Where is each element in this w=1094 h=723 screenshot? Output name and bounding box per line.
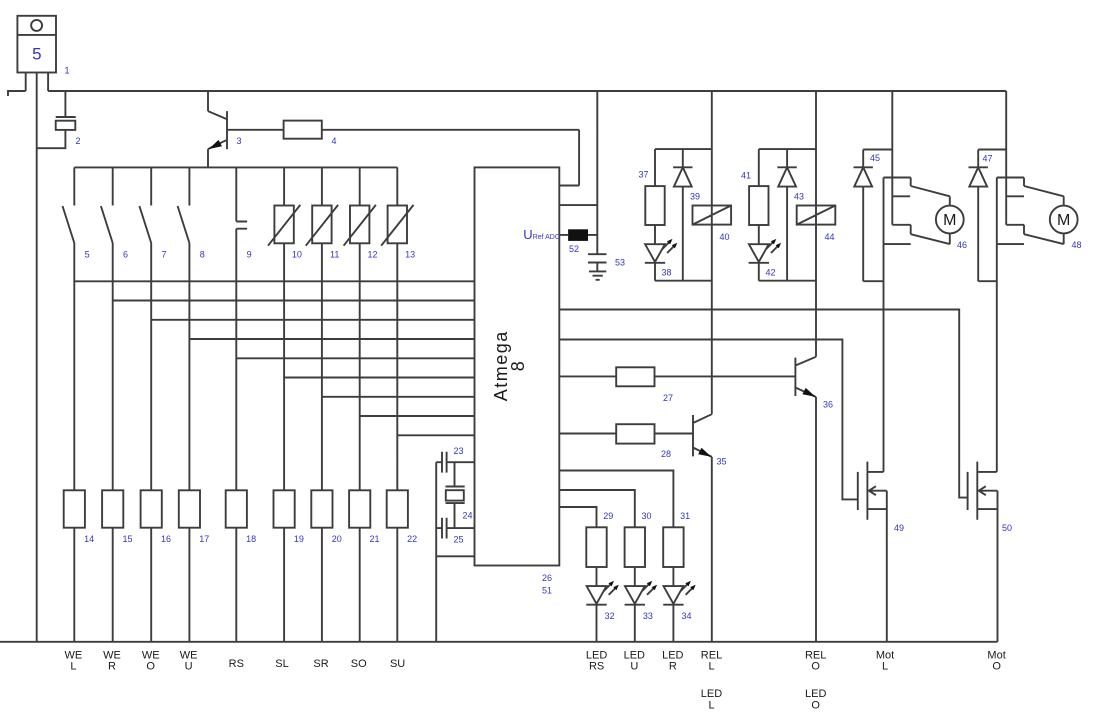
- svg-text:21: 21: [369, 534, 379, 544]
- svg-text:10: 10: [292, 250, 302, 260]
- svg-text:12: 12: [367, 250, 377, 260]
- svg-text:37: 37: [638, 170, 648, 180]
- svg-text:46: 46: [957, 240, 967, 250]
- svg-text:18: 18: [246, 534, 256, 544]
- svg-text:2: 2: [75, 136, 80, 146]
- svg-text:38: 38: [661, 268, 671, 278]
- svg-text:O: O: [811, 660, 820, 672]
- svg-text:M: M: [1057, 212, 1070, 229]
- svg-text:U: U: [630, 660, 638, 672]
- svg-text:20: 20: [332, 534, 342, 544]
- svg-text:39: 39: [690, 192, 700, 202]
- svg-text:16: 16: [161, 534, 171, 544]
- svg-text:M: M: [943, 212, 956, 229]
- svg-text:34: 34: [681, 611, 691, 621]
- svg-text:19: 19: [294, 534, 304, 544]
- svg-text:L: L: [70, 660, 76, 672]
- svg-text:48: 48: [1071, 240, 1081, 250]
- svg-text:30: 30: [641, 511, 651, 521]
- svg-text:SU: SU: [390, 658, 405, 670]
- svg-text:26: 26: [542, 573, 552, 583]
- svg-text:3: 3: [236, 136, 241, 146]
- svg-text:32: 32: [605, 611, 615, 621]
- svg-text:24: 24: [462, 511, 472, 521]
- svg-text:42: 42: [765, 268, 775, 278]
- svg-text:SR: SR: [313, 658, 328, 670]
- svg-text:O: O: [811, 700, 820, 712]
- svg-text:47: 47: [982, 154, 992, 164]
- svg-text:4: 4: [331, 136, 336, 146]
- svg-text:7: 7: [161, 250, 166, 260]
- svg-text:R: R: [108, 660, 116, 672]
- svg-text:SO: SO: [351, 658, 367, 670]
- svg-text:5: 5: [85, 250, 90, 260]
- svg-text:50: 50: [1002, 523, 1012, 533]
- svg-text:22: 22: [407, 534, 417, 544]
- svg-text:27: 27: [663, 393, 673, 403]
- svg-text:31: 31: [680, 511, 690, 521]
- svg-text:1: 1: [64, 66, 69, 76]
- svg-text:O: O: [992, 660, 1001, 672]
- svg-text:RS: RS: [229, 658, 244, 670]
- svg-text:43: 43: [794, 192, 804, 202]
- svg-text:23: 23: [453, 446, 463, 456]
- svg-text:28: 28: [661, 449, 671, 459]
- svg-text:53: 53: [615, 258, 625, 268]
- svg-text:O: O: [146, 660, 155, 672]
- svg-text:L: L: [708, 700, 714, 712]
- svg-text:SL: SL: [275, 658, 288, 670]
- svg-text:17: 17: [199, 534, 209, 544]
- svg-text:41: 41: [741, 171, 751, 181]
- svg-text:L: L: [882, 660, 888, 672]
- svg-text:L: L: [708, 660, 714, 672]
- svg-text:33: 33: [643, 611, 653, 621]
- svg-text:RS: RS: [589, 660, 604, 672]
- svg-text:LED: LED: [701, 688, 722, 700]
- svg-text:45: 45: [870, 153, 880, 163]
- svg-text:51: 51: [542, 586, 552, 596]
- svg-text:13: 13: [405, 250, 415, 260]
- svg-text:35: 35: [716, 457, 726, 467]
- svg-text:15: 15: [122, 534, 132, 544]
- svg-text:29: 29: [603, 511, 613, 521]
- svg-text:9: 9: [247, 250, 252, 260]
- svg-text:11: 11: [330, 250, 339, 260]
- svg-text:6: 6: [123, 250, 128, 260]
- svg-text:44: 44: [824, 232, 834, 242]
- svg-text:R: R: [669, 660, 677, 672]
- svg-text:LED: LED: [805, 688, 826, 700]
- svg-text:36: 36: [823, 400, 833, 410]
- svg-text:14: 14: [84, 534, 94, 544]
- svg-text:52: 52: [569, 244, 579, 254]
- svg-text:8: 8: [200, 250, 205, 260]
- svg-text:49: 49: [894, 523, 904, 533]
- svg-text:25: 25: [453, 535, 463, 545]
- svg-text:U: U: [185, 660, 193, 672]
- svg-text:URef ADC: URef ADC: [523, 227, 560, 242]
- svg-text:8: 8: [508, 361, 528, 371]
- svg-text:5: 5: [32, 45, 41, 64]
- svg-text:40: 40: [719, 232, 729, 242]
